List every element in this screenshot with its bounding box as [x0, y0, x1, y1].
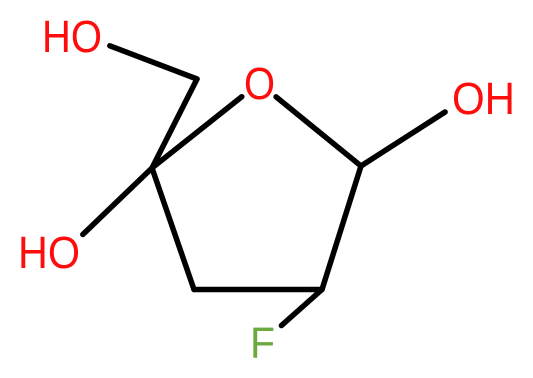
- svg-text:HO: HO: [18, 227, 80, 278]
- svg-text:O: O: [244, 58, 275, 109]
- svg-text:OH: OH: [452, 73, 515, 124]
- svg-text:HO: HO: [42, 11, 102, 62]
- svg-text:F: F: [250, 318, 275, 367]
